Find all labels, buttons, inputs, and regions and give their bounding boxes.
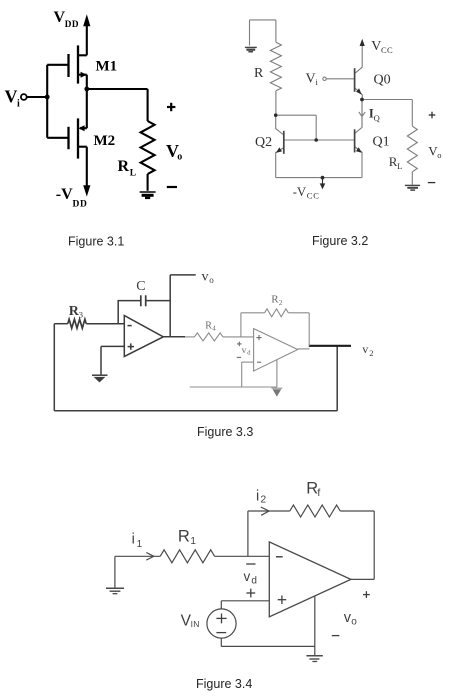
svg-text:i: i (256, 489, 259, 505)
svg-text:L: L (397, 161, 402, 171)
svg-text:Figure 3.1: Figure 3.1 (68, 235, 124, 249)
svg-text:V: V (5, 87, 18, 107)
svg-text:R: R (178, 528, 190, 546)
svg-text:2: 2 (279, 298, 283, 307)
svg-text:i: i (316, 77, 319, 87)
svg-text:R: R (306, 480, 318, 498)
svg-text:3: 3 (79, 310, 83, 320)
svg-text:1: 1 (137, 539, 143, 550)
svg-text:d: d (247, 350, 251, 357)
svg-text:i: i (17, 99, 20, 110)
svg-text:Q0: Q0 (374, 73, 391, 88)
svg-text:DD: DD (73, 200, 88, 210)
svg-text:-V: -V (56, 186, 73, 203)
svg-text:V: V (54, 9, 66, 26)
svg-text:IN: IN (191, 619, 200, 629)
svg-text:R: R (118, 158, 130, 175)
svg-text:i: i (132, 532, 135, 548)
svg-text:Q: Q (374, 113, 380, 123)
svg-text:o: o (351, 616, 357, 627)
svg-text:-V: -V (293, 185, 306, 199)
svg-text:L: L (130, 169, 136, 179)
svg-text:o: o (177, 152, 182, 163)
svg-text:o: o (209, 275, 214, 285)
svg-text:CC: CC (381, 45, 393, 55)
svg-text:Q2: Q2 (255, 135, 272, 150)
svg-text:f: f (317, 487, 320, 499)
svg-text:Figure 3.4: Figure 3.4 (196, 677, 252, 691)
svg-text:V: V (306, 72, 316, 87)
svg-text:DD: DD (65, 19, 79, 29)
svg-text:R: R (254, 66, 264, 81)
svg-text:v: v (242, 346, 247, 356)
svg-text:M2: M2 (94, 133, 116, 149)
svg-text:V: V (371, 39, 381, 54)
svg-text:Q1: Q1 (373, 135, 390, 150)
svg-text:Figure 3.3: Figure 3.3 (197, 425, 253, 439)
svg-text:1: 1 (190, 536, 196, 547)
svg-text:4: 4 (212, 324, 216, 332)
svg-text:v: v (244, 569, 251, 584)
svg-text:CC: CC (307, 191, 320, 201)
svg-text:M1: M1 (96, 59, 118, 75)
svg-text:C: C (136, 279, 145, 294)
svg-text:v: v (362, 342, 368, 356)
svg-text:Figure 3.2: Figure 3.2 (312, 234, 368, 248)
svg-text:v: v (202, 270, 209, 285)
svg-text:2: 2 (260, 493, 266, 505)
svg-text:o: o (437, 150, 441, 160)
svg-text:d: d (251, 575, 257, 586)
svg-text:2: 2 (369, 348, 373, 358)
